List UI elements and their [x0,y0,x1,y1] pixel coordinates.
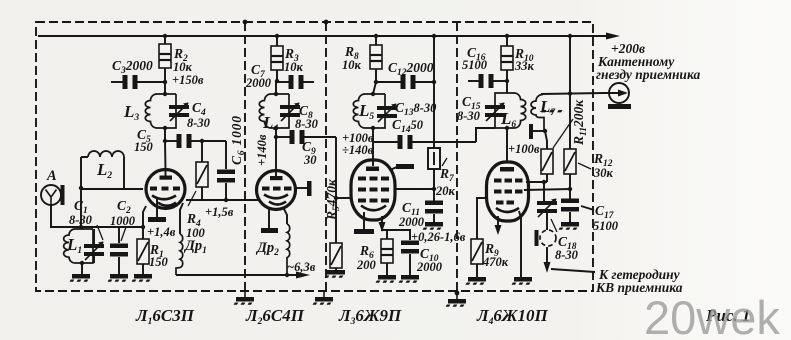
cathode lead + ground [519,211,521,277]
heater arrow [381,216,383,227]
tube U2 envelope [257,171,296,210]
capacitor C17 [561,199,579,212]
capacitor C6 [217,170,235,183]
tube U3 anode [366,167,379,172]
capacitor C5 [177,134,192,148]
ground under R5 [325,270,345,278]
node L3 bottom / C5 [163,139,167,143]
tube U1 grid dashes [150,187,180,191]
capacitor C9 [290,130,305,144]
svg-text:÷140в: ÷140в [342,143,374,157]
tube U1 anode [160,176,173,180]
svg-text:+150в: +150в [172,73,204,87]
dashed chassis border [36,22,593,291]
capacitor C10 [401,241,419,254]
svg-text:10к: 10к [342,58,362,72]
svg-text:150: 150 [134,140,154,154]
antenna A circle [41,185,61,205]
node dots on bus and border [163,20,572,296]
svg-text:8-30: 8-30 [69,213,93,227]
cathode lead to rail [143,206,146,227]
svg-text:8-30: 8-30 [295,117,319,131]
node below R8 [374,80,378,84]
svg-text:+100в: +100в [508,142,540,156]
svg-text:2000: 2000 [398,215,425,229]
resistor R3 [271,46,283,70]
svg-text:20к: 20к [435,184,456,198]
cathode lead + ground bar [363,212,365,229]
tube U2 anode [270,176,283,180]
tube U1 cathode [152,196,176,200]
grid lead + ground bar right [295,187,307,189]
tube U4 grid rows [494,179,523,205]
+1.5v line to stage2 tube [186,199,258,201]
coil L6 rect loop [495,93,507,128]
partition ground 1 [234,297,254,305]
resistor R8 [370,45,382,69]
screen lead to R11 [526,181,547,183]
wire screen node down to C18 [543,182,545,201]
heterodyne connector [535,230,539,246]
tube U3 grid rows [358,177,389,203]
coil L1 [64,229,93,263]
partition shield line 3 [456,22,458,291]
screen lead to R7 [394,188,434,190]
tube U2 cathode [264,195,288,199]
capacitor C14 [398,135,413,149]
capacitor C16 [479,74,494,88]
svg-text:+140в: +140в [255,134,269,166]
heater line [176,274,296,276]
svg-text:А: А [46,168,57,184]
resistor R2 [159,44,171,68]
node L5 bottom [371,126,375,130]
svg-text:Л26С4П: Л26С4П [245,306,305,327]
svg-text:1000: 1000 [110,214,136,228]
node below R10 [505,79,509,83]
svg-text:33к: 33к [514,59,535,73]
grid ground bar under tube [156,199,158,217]
wire to antenna socket [541,93,604,94]
trimmer C1 [84,242,104,261]
wire R12 drop from bus [569,36,571,149]
capacitor C2 [110,244,128,257]
trimmer C13 [377,104,397,123]
node L6 bottom [505,126,509,130]
wire R5 drop [335,137,337,243]
heater arrow [497,216,499,230]
resistor R11 [541,149,553,174]
tube U4 anode [500,167,514,172]
antenna socket connector [609,83,629,103]
down arrow to heterodyne [546,247,548,266]
resistor R12 [564,149,576,174]
tube U3 envelope [351,160,395,220]
capacitor C7 [289,75,304,89]
wire anode down [506,128,508,162]
ground under C17 [559,222,579,230]
node anode / C9 branch [274,135,278,139]
node dot grid tap [79,186,83,190]
svg-text:2000: 2000 [245,76,272,90]
node dot L1 bottom [80,261,84,265]
choke Dr2 [283,207,287,224]
coil L7 [531,94,544,131]
node +150v [163,80,167,84]
svg-text:10к: 10к [284,60,304,74]
svg-text:20wek: 20wek [644,291,780,340]
svg-text:200: 200 [356,258,377,272]
wire R7 drop [433,36,435,148]
svg-text:Л16С3П: Л16С3П [135,306,195,327]
grid return R9 [477,198,488,239]
ground under C2 [108,274,128,282]
wire grid line to tube [81,188,143,190]
svg-text:+0,26-1,6в: +0,26-1,6в [411,230,466,244]
svg-text:470к: 470к [482,255,509,269]
capacitor C12 [401,75,416,89]
choke Dr1 [180,203,183,234]
svg-text:30: 30 [303,153,317,167]
wire anode down [164,141,167,170]
coil L4 [259,94,289,128]
capacitor C11 [425,201,443,214]
g3 lead to R12 node [524,189,571,190]
tube U3 cathode [361,206,386,211]
trimmer C18 [537,199,557,218]
ground under R6 [376,275,396,283]
resistor R7 [428,148,440,169]
bus arrowhead [606,33,620,40]
antenna jack bar [61,185,65,205]
partition ground 2 [313,297,333,305]
R6 heater node line [381,229,411,231]
wire anode down [372,128,374,160]
tube U2 grid dashes [262,187,292,191]
svg-text:10к: 10к [173,60,193,74]
trimmer C4 [169,103,189,122]
wire L2 left vertical [80,157,82,229]
callout line [551,269,595,272]
grid top-cap bar [529,124,533,139]
resistor R4 [196,162,208,187]
tube U1 envelope [146,170,185,209]
tube U3 g3 bar [390,167,398,171]
wire antenna to input rail [51,205,143,227]
svg-text:5100: 5100 [462,58,488,72]
C17 callout [581,206,594,210]
grid lead from R5 node [336,197,352,199]
trimmer C15 [485,103,505,122]
svg-text:2000: 2000 [416,260,443,274]
svg-text:30к: 30к [593,166,614,180]
node dot rail/L1 [79,225,83,229]
resistor R1 [137,239,149,264]
+200V bus [38,35,607,37]
svg-text:~6,3в: ~6,3в [287,260,316,274]
ground under C10 [399,275,419,283]
resistor R10 [501,46,513,70]
ground under R1 [132,274,152,282]
svg-text:Л36Ж9П: Л36Ж9П [338,306,402,327]
trimmer C8 [280,103,300,122]
node below R3 [275,79,279,83]
resistor R5 [330,243,342,268]
partition ground 3 [446,299,466,307]
resistor R6 [381,239,393,263]
partition shield line 1 [244,22,246,291]
tube U4 envelope [487,162,529,221]
cathode lead + bar [268,209,270,228]
ground under C11 [423,222,443,230]
coil L3 [145,94,176,128]
wire C14 to L6 [476,128,495,142]
svg-text:+1,5в: +1,5в [205,205,234,219]
wire L7 node to R11 [545,131,547,149]
wire C5 node to C6 [202,140,226,142]
svg-text:гнезду приемника: гнезду приемника [596,67,700,82]
capacitor C3 [123,75,138,89]
ground under L1 [70,274,90,282]
svg-text:8-30: 8-30 [187,116,211,130]
partition shield line 2 [325,22,327,291]
svg-text:8-30: 8-30 [457,109,481,123]
svg-text:Л46Ж10П: Л46Ж10П [476,306,549,327]
coil L2 [88,151,124,157]
socket ground [608,104,631,109]
svg-text:+1,4в: +1,4в [147,225,176,239]
coil L5 [353,94,385,128]
tube U4 cathode [496,208,519,212]
svg-text:8-30: 8-30 [555,248,579,262]
wire L2 right lead [123,157,125,189]
svg-text:5100: 5100 [593,219,619,233]
svg-text:150: 150 [149,255,169,269]
